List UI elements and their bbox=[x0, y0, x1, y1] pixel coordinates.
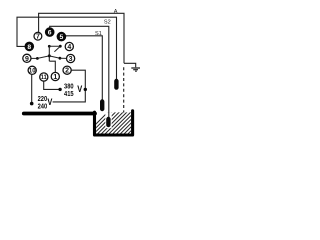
terminal 10 bbox=[28, 66, 36, 74]
svg-text:S1: S1 bbox=[95, 31, 102, 37]
wire: terminal 10 down to 220/240 V tap bbox=[31, 75, 33, 103]
wire: net S1 from terminal 5 across, down to middle electrode bbox=[66, 36, 103, 101]
internal contact: blade near terminal 4 bbox=[54, 46, 60, 51]
wire: feed line from terminal 8 up-left, across top, down to electrode E1 bbox=[17, 17, 117, 80]
svg-text:V: V bbox=[77, 84, 82, 94]
terminal 8 (used, filled) bbox=[25, 42, 35, 52]
internal contact: blade from terminal 9 contact to center bbox=[37, 56, 49, 59]
svg-text:S2: S2 bbox=[104, 20, 111, 26]
ground stem bbox=[124, 63, 136, 67]
junction dot at end of terminal 10 wire bbox=[30, 102, 34, 106]
liquid hatching in tank bbox=[82, 110, 159, 138]
wire: S2 electrode lead inside tank (redrawn over halo) bbox=[108, 112, 110, 118]
terminal 9 bbox=[23, 54, 31, 63]
svg-text:7: 7 bbox=[36, 34, 40, 41]
svg-text:8: 8 bbox=[27, 44, 31, 51]
wire: pole jog down to terminal 1 bbox=[49, 61, 55, 72]
wire: dashed connection from net A down to tank bbox=[123, 67, 125, 112]
svg-text:4: 4 bbox=[67, 44, 71, 51]
electrode E1 rod bbox=[114, 81, 118, 88]
value label 220/240 V bbox=[38, 94, 53, 111]
junction dot on terminal 2 wire (380/415 V tap) bbox=[84, 88, 87, 91]
svg-text:3: 3 bbox=[69, 56, 73, 63]
svg-text:11: 11 bbox=[41, 74, 47, 81]
value label 380/415 V bbox=[64, 82, 82, 99]
terminal 5 (used, filled) bbox=[57, 32, 67, 42]
supply bar (thick line to tank) bbox=[24, 112, 95, 116]
svg-text:9: 9 bbox=[25, 56, 29, 63]
internal contact: fixed contact dot near terminal 9 bbox=[36, 57, 39, 60]
terminal 4 bbox=[65, 42, 73, 51]
wire: terminal 2 to voltage taps bbox=[53, 70, 86, 102]
svg-text:415: 415 bbox=[64, 89, 74, 98]
terminal 1 bbox=[51, 72, 59, 81]
terminal 3 bbox=[67, 54, 75, 63]
terminal 11 bbox=[40, 73, 48, 81]
junction dot at end of terminal 11 wire bbox=[58, 88, 61, 91]
internal contact: arm to fixed contact near terminal 4 bbox=[49, 45, 60, 47]
ground bbox=[131, 68, 140, 71]
internal contact: center junction dot bbox=[48, 54, 51, 57]
electrode S2 rod (deep, submerged) bbox=[106, 119, 110, 125]
wire: net A from terminal 7 up, across top, down right side bbox=[39, 13, 124, 63]
internal contact: fixed contact dot near terminal 4 bbox=[59, 45, 62, 48]
electrode S1 rod bbox=[100, 102, 104, 110]
wire: terminal 11 down and right to 380/415 V tap bbox=[44, 81, 59, 89]
tank outline bbox=[95, 111, 133, 135]
svg-text:10: 10 bbox=[29, 68, 36, 75]
wire: net S2 from terminal 6 up, across, down to deep electrode bbox=[50, 26, 109, 118]
terminal 6 (used, filled) bbox=[45, 27, 55, 37]
svg-text:1: 1 bbox=[53, 74, 57, 81]
wire: fixed contact to terminal 3 bbox=[60, 57, 67, 59]
terminal 7 bbox=[34, 32, 42, 40]
white halo around submerged electrode bbox=[105, 112, 111, 128]
svg-text:5: 5 bbox=[60, 34, 64, 41]
terminal 2 bbox=[63, 66, 71, 75]
svg-text:2: 2 bbox=[65, 68, 69, 75]
internal contact: pole junction dot bbox=[48, 45, 51, 48]
internal contact: arm from center to fixed contact near terminal 3 bbox=[49, 56, 60, 58]
internal contact: center pole line bbox=[48, 46, 50, 61]
internal contact: fixed contact dot near terminal 3 bbox=[59, 57, 62, 60]
svg-text:6: 6 bbox=[48, 30, 52, 37]
svg-text:240: 240 bbox=[38, 102, 48, 111]
svg-text:V: V bbox=[47, 97, 52, 107]
wire: terminal 9 to fixed contact bbox=[31, 57, 37, 59]
svg-text:A: A bbox=[114, 9, 118, 15]
